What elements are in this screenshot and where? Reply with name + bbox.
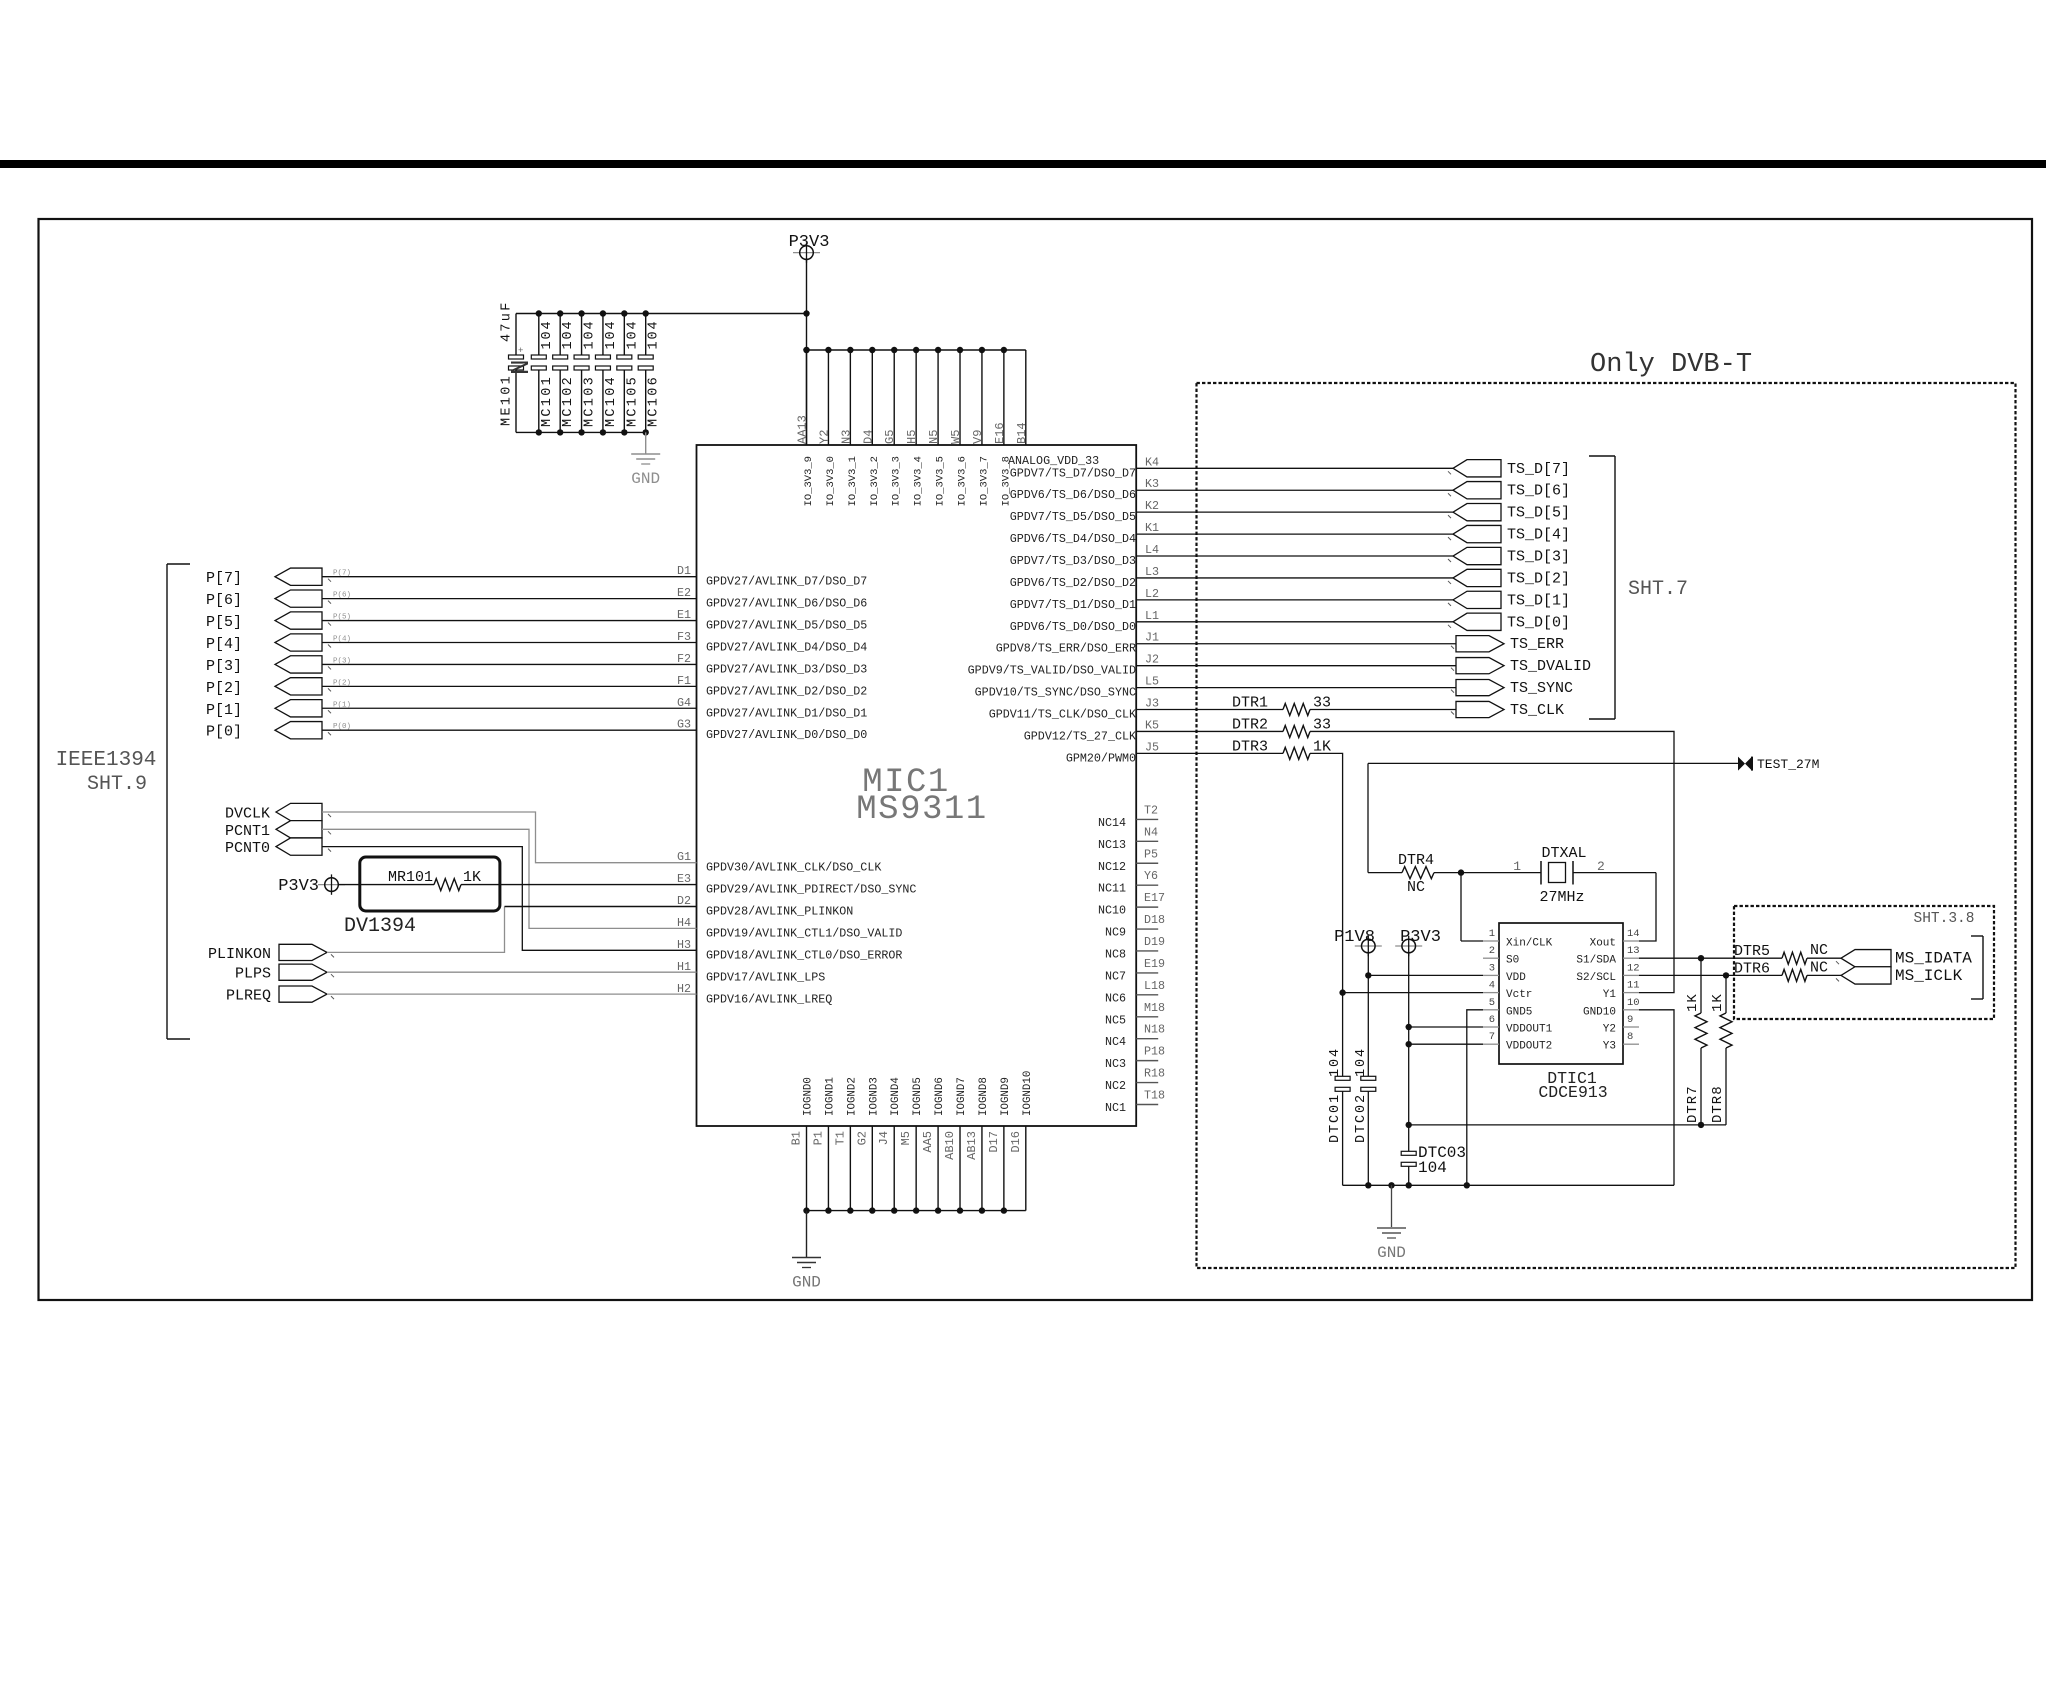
svg-text:L5: L5 [1145, 675, 1159, 689]
svg-text:NC: NC [1407, 879, 1425, 896]
svg-text:MC103: MC103 [583, 375, 598, 427]
svg-text:SHT.3.8: SHT.3.8 [1914, 911, 1975, 927]
svg-text:NC6: NC6 [1105, 991, 1126, 1005]
svg-text:IO_3V3_6: IO_3V3_6 [957, 456, 969, 506]
svg-text:NC4: NC4 [1105, 1035, 1126, 1049]
svg-text:GND: GND [1377, 1244, 1406, 1262]
svg-text:GPDV7/TS_D3/DSO_D3: GPDV7/TS_D3/DSO_D3 [1010, 554, 1136, 568]
svg-text:IO_3V3_4: IO_3V3_4 [913, 456, 925, 506]
svg-text:104: 104 [625, 319, 640, 349]
svg-text:P[1]: P[1] [206, 702, 242, 719]
svg-text:PLREQ: PLREQ [226, 988, 271, 1005]
svg-text:SHT.9: SHT.9 [87, 773, 147, 796]
svg-text:DTR6: DTR6 [1734, 960, 1770, 977]
svg-text:GND5: GND5 [1506, 1006, 1532, 1018]
svg-text:IOGND1: IOGND1 [824, 1077, 836, 1116]
svg-text:33: 33 [1313, 716, 1331, 733]
svg-text:GPDV28/AVLINK_PLINKON: GPDV28/AVLINK_PLINKON [706, 905, 853, 919]
svg-text:Xout: Xout [1590, 938, 1616, 950]
svg-text:NC8: NC8 [1105, 947, 1126, 961]
svg-text:L2: L2 [1145, 587, 1159, 601]
svg-text:GPDV6/TS_D6/DSO_D6: GPDV6/TS_D6/DSO_D6 [1010, 488, 1136, 502]
svg-text:TS_D[6]: TS_D[6] [1507, 483, 1570, 500]
svg-text:P[5]: P[5] [206, 614, 242, 631]
svg-text:IOGND9: IOGND9 [1000, 1077, 1012, 1116]
svg-text:IOGND10: IOGND10 [1022, 1071, 1034, 1116]
svg-text:IO_3V3_8: IO_3V3_8 [1000, 456, 1012, 506]
svg-text:DTC02: DTC02 [1354, 1093, 1369, 1143]
svg-text:PCNT0: PCNT0 [225, 840, 270, 857]
svg-text:MS_ICLK: MS_ICLK [1895, 967, 1963, 985]
svg-text:D17: D17 [987, 1131, 1001, 1153]
svg-text:NC3: NC3 [1105, 1057, 1126, 1071]
svg-text:J3: J3 [1145, 697, 1159, 711]
svg-text:104: 104 [604, 319, 619, 349]
svg-text:IOGND2: IOGND2 [846, 1077, 858, 1116]
svg-text:13: 13 [1627, 945, 1640, 957]
svg-text:PLINKON: PLINKON [208, 946, 271, 963]
svg-text:J4: J4 [877, 1131, 891, 1145]
svg-text:P1: P1 [811, 1131, 825, 1145]
svg-text:1K: 1K [1313, 738, 1331, 755]
svg-text:GPDV27/AVLINK_D7/DSO_D7: GPDV27/AVLINK_D7/DSO_D7 [706, 575, 867, 589]
svg-text:NC11: NC11 [1098, 882, 1126, 896]
svg-text:AA13: AA13 [796, 415, 810, 444]
svg-text:P(4): P(4) [333, 635, 351, 643]
svg-text:Vctr: Vctr [1506, 989, 1532, 1001]
svg-text:B1: B1 [790, 1131, 804, 1145]
svg-text:IOGND5: IOGND5 [912, 1077, 924, 1116]
svg-text:+: + [518, 346, 523, 356]
svg-text:N18: N18 [1144, 1023, 1165, 1037]
svg-text:R18: R18 [1144, 1067, 1165, 1081]
svg-text:DTR7: DTR7 [1685, 1085, 1701, 1123]
svg-text:8: 8 [1627, 1031, 1633, 1043]
svg-text:IOGND0: IOGND0 [803, 1077, 815, 1116]
svg-text:D4: D4 [861, 430, 875, 444]
svg-text:P[6]: P[6] [206, 592, 242, 609]
svg-text:J5: J5 [1145, 740, 1159, 754]
svg-text:P(6): P(6) [333, 592, 351, 600]
svg-text:NC: NC [1810, 959, 1828, 976]
svg-text:DTR5: DTR5 [1734, 943, 1770, 960]
svg-text:MR101: MR101 [388, 869, 433, 886]
svg-text:TS_D[4]: TS_D[4] [1507, 527, 1570, 544]
svg-text:GND10: GND10 [1583, 1006, 1616, 1018]
svg-text:GPDV27/AVLINK_D2/DSO_D2: GPDV27/AVLINK_D2/DSO_D2 [706, 684, 867, 698]
svg-text:TS_ERR: TS_ERR [1510, 636, 1564, 653]
svg-text:GPDV7/TS_D5/DSO_D5: GPDV7/TS_D5/DSO_D5 [1010, 510, 1136, 524]
svg-text:L3: L3 [1145, 565, 1159, 579]
svg-text:MS9311: MS9311 [856, 791, 987, 829]
svg-text:GPDV10/TS_SYNC/DSO_SYNC: GPDV10/TS_SYNC/DSO_SYNC [975, 686, 1136, 700]
svg-text:GPDV6/TS_D0/DSO_D0: GPDV6/TS_D0/DSO_D0 [1010, 620, 1136, 634]
svg-text:Y2: Y2 [817, 430, 831, 444]
svg-text:NC: NC [1810, 942, 1828, 959]
svg-text:K5: K5 [1145, 718, 1159, 732]
svg-text:MC104: MC104 [604, 375, 619, 427]
svg-text:DTC01: DTC01 [1328, 1093, 1343, 1143]
svg-text:3: 3 [1489, 962, 1495, 974]
svg-text:TS_D[1]: TS_D[1] [1507, 592, 1570, 609]
svg-text:PLPS: PLPS [235, 966, 271, 983]
svg-text:IOGND3: IOGND3 [868, 1077, 880, 1116]
svg-text:P1V8: P1V8 [1334, 928, 1375, 947]
svg-text:IO_3V3_1: IO_3V3_1 [847, 456, 859, 506]
svg-text:DTXAL: DTXAL [1541, 845, 1586, 862]
svg-text:V9: V9 [971, 430, 985, 444]
svg-text:P3V3: P3V3 [1400, 928, 1441, 947]
svg-text:NC2: NC2 [1105, 1079, 1126, 1093]
svg-text:11: 11 [1627, 980, 1640, 992]
svg-text:PCNT1: PCNT1 [225, 823, 270, 840]
svg-text:1K: 1K [1685, 993, 1701, 1012]
svg-text:P(1): P(1) [333, 701, 351, 709]
svg-text:P3V3: P3V3 [789, 233, 830, 252]
svg-text:GPDV16/AVLINK_LREQ: GPDV16/AVLINK_LREQ [706, 992, 832, 1006]
svg-text:TEST_27M: TEST_27M [1757, 757, 1819, 772]
svg-text:S0: S0 [1506, 955, 1519, 967]
svg-text:TS_D[7]: TS_D[7] [1507, 461, 1570, 478]
svg-text:P[7]: P[7] [206, 570, 242, 587]
svg-text:1: 1 [1513, 859, 1521, 874]
svg-text:MS_IDATA: MS_IDATA [1895, 950, 1972, 968]
svg-text:MC101: MC101 [540, 375, 555, 427]
svg-text:SHT.7: SHT.7 [1628, 578, 1688, 601]
svg-text:M18: M18 [1144, 1001, 1165, 1015]
svg-text:IO_3V3_0: IO_3V3_0 [825, 456, 837, 506]
svg-text:E17: E17 [1144, 891, 1165, 905]
svg-text:P(2): P(2) [333, 679, 351, 687]
svg-text:IEEE1394: IEEE1394 [56, 749, 157, 772]
svg-text:DTR3: DTR3 [1232, 738, 1268, 755]
svg-text:IO_3V3_5: IO_3V3_5 [935, 456, 947, 506]
svg-text:T18: T18 [1144, 1088, 1165, 1102]
svg-text:T1: T1 [833, 1131, 847, 1145]
svg-text:GPDV30/AVLINK_CLK/DSO_CLK: GPDV30/AVLINK_CLK/DSO_CLK [706, 861, 881, 875]
svg-text:NC5: NC5 [1105, 1013, 1126, 1027]
svg-text:GPDV7/TS_D1/DSO_D1: GPDV7/TS_D1/DSO_D1 [1010, 598, 1136, 612]
svg-text:P[3]: P[3] [206, 658, 242, 675]
svg-text:2: 2 [1597, 859, 1605, 874]
svg-text:L4: L4 [1145, 543, 1159, 557]
svg-text:DTR4: DTR4 [1398, 852, 1434, 869]
svg-text:1K: 1K [463, 869, 481, 886]
svg-text:GPDV27/AVLINK_D1/DSO_D1: GPDV27/AVLINK_D1/DSO_D1 [706, 706, 867, 720]
svg-text:W5: W5 [949, 430, 963, 444]
svg-text:P5: P5 [1144, 847, 1158, 861]
svg-text:P[2]: P[2] [206, 680, 242, 697]
svg-text:IO_3V3_7: IO_3V3_7 [978, 456, 990, 506]
svg-text:K2: K2 [1145, 499, 1159, 513]
svg-text:DTR1: DTR1 [1232, 695, 1268, 712]
svg-text:VDD: VDD [1506, 972, 1526, 984]
svg-text:P3V3: P3V3 [278, 877, 319, 896]
svg-text:P(7): P(7) [333, 570, 351, 578]
svg-text:33: 33 [1313, 695, 1331, 712]
svg-text:S1/SDA: S1/SDA [1576, 955, 1616, 967]
svg-text:D16: D16 [1009, 1131, 1023, 1153]
svg-text:E19: E19 [1144, 957, 1165, 971]
svg-text:GPDV27/AVLINK_D4/DSO_D4: GPDV27/AVLINK_D4/DSO_D4 [706, 640, 867, 654]
svg-text:TS_DVALID: TS_DVALID [1510, 658, 1591, 675]
svg-text:IO_3V3_9: IO_3V3_9 [803, 456, 815, 506]
svg-text:GPDV12/TS_27_CLK: GPDV12/TS_27_CLK [1024, 729, 1136, 743]
svg-text:DTR8: DTR8 [1710, 1085, 1726, 1123]
svg-text:NC1: NC1 [1105, 1101, 1126, 1115]
svg-text:S2/SCL: S2/SCL [1576, 972, 1616, 984]
svg-text:J2: J2 [1145, 653, 1159, 667]
svg-text:P(3): P(3) [333, 657, 351, 665]
svg-text:MC102: MC102 [561, 375, 576, 427]
svg-text:104: 104 [540, 319, 555, 349]
svg-text:104: 104 [561, 319, 576, 349]
svg-text:NC7: NC7 [1105, 969, 1126, 983]
svg-text:CDCE913: CDCE913 [1538, 1083, 1607, 1102]
svg-text:MC105: MC105 [625, 375, 640, 427]
svg-text:12: 12 [1627, 962, 1640, 974]
svg-text:P18: P18 [1144, 1045, 1165, 1059]
svg-text:DV1394: DV1394 [344, 915, 416, 938]
svg-text:NC9: NC9 [1105, 926, 1126, 940]
svg-text:5: 5 [1489, 997, 1495, 1009]
svg-text:GPDV9/TS_VALID/DSO_VALID: GPDV9/TS_VALID/DSO_VALID [968, 664, 1136, 678]
svg-text:GPDV19/AVLINK_CTL1/DSO_VALID: GPDV19/AVLINK_CTL1/DSO_VALID [706, 926, 902, 940]
svg-text:MC106: MC106 [647, 375, 662, 427]
svg-text:B14: B14 [1015, 422, 1029, 444]
svg-text:GPDV11/TS_CLK/DSO_CLK: GPDV11/TS_CLK/DSO_CLK [989, 708, 1136, 722]
svg-text:Y2: Y2 [1603, 1024, 1616, 1036]
svg-text:Xin/CLK: Xin/CLK [1506, 938, 1553, 950]
svg-text:IOGND6: IOGND6 [934, 1077, 946, 1116]
svg-text:AA5: AA5 [921, 1131, 935, 1153]
svg-text:104: 104 [583, 319, 598, 349]
svg-text:GPDV27/AVLINK_D0/DSO_D0: GPDV27/AVLINK_D0/DSO_D0 [706, 728, 867, 742]
svg-text:NC12: NC12 [1098, 860, 1126, 874]
svg-text:N4: N4 [1144, 825, 1158, 839]
svg-text:TS_D[5]: TS_D[5] [1507, 505, 1570, 522]
svg-text:VDDOUT1: VDDOUT1 [1506, 1024, 1553, 1036]
svg-text:GPDV6/TS_D4/DSO_D4: GPDV6/TS_D4/DSO_D4 [1010, 532, 1136, 546]
svg-text:10: 10 [1627, 997, 1640, 1009]
svg-text:GPDV27/AVLINK_D6/DSO_D6: GPDV27/AVLINK_D6/DSO_D6 [706, 597, 867, 611]
svg-text:TS_SYNC: TS_SYNC [1510, 680, 1573, 697]
svg-text:G5: G5 [883, 430, 897, 444]
svg-text:Only DVB-T: Only DVB-T [1590, 350, 1752, 380]
svg-text:9: 9 [1627, 1014, 1633, 1026]
svg-text:GPDV27/AVLINK_D3/DSO_D3: GPDV27/AVLINK_D3/DSO_D3 [706, 662, 867, 676]
svg-text:GPDV17/AVLINK_LPS: GPDV17/AVLINK_LPS [706, 970, 825, 984]
svg-text:D18: D18 [1144, 913, 1165, 927]
svg-text:GPDV18/AVLINK_CTL0/DSO_ERROR: GPDV18/AVLINK_CTL0/DSO_ERROR [706, 948, 902, 962]
svg-text:GPDV6/TS_D2/DSO_D2: GPDV6/TS_D2/DSO_D2 [1010, 576, 1136, 590]
svg-text:TS_D[3]: TS_D[3] [1507, 549, 1570, 566]
svg-text:GND: GND [631, 470, 660, 488]
svg-text:IOGND4: IOGND4 [890, 1077, 902, 1116]
svg-text:7: 7 [1489, 1031, 1495, 1043]
svg-text:AB10: AB10 [943, 1131, 957, 1160]
svg-text:GPDV29/AVLINK_PDIRECT/DSO_SYNC: GPDV29/AVLINK_PDIRECT/DSO_SYNC [706, 883, 916, 897]
svg-text:4: 4 [1489, 980, 1495, 992]
svg-text:6: 6 [1489, 1014, 1495, 1026]
svg-text:AB13: AB13 [965, 1131, 979, 1160]
svg-text:DTR2: DTR2 [1232, 716, 1268, 733]
svg-text:GPM20/PWM0: GPM20/PWM0 [1066, 751, 1136, 765]
svg-text:M5: M5 [899, 1131, 913, 1145]
svg-text:2: 2 [1489, 945, 1495, 957]
svg-text:P(5): P(5) [333, 614, 351, 622]
svg-text:K4: K4 [1145, 455, 1159, 469]
svg-text:D19: D19 [1144, 935, 1165, 949]
svg-text:47uF: 47uF [500, 300, 515, 342]
svg-text:N3: N3 [839, 430, 853, 444]
svg-text:NC10: NC10 [1098, 904, 1126, 918]
svg-text:GPDV27/AVLINK_D5/DSO_D5: GPDV27/AVLINK_D5/DSO_D5 [706, 619, 867, 633]
svg-text:T2: T2 [1144, 803, 1158, 817]
svg-text:J1: J1 [1145, 631, 1159, 645]
svg-text:GND: GND [792, 1274, 821, 1292]
svg-text:Y6: Y6 [1144, 869, 1158, 883]
svg-text:P(0): P(0) [333, 723, 351, 731]
svg-text:VDDOUT2: VDDOUT2 [1506, 1041, 1552, 1053]
svg-text:DVCLK: DVCLK [225, 806, 270, 823]
svg-text:104: 104 [1418, 1159, 1447, 1177]
svg-text:104: 104 [647, 319, 662, 349]
svg-text:Y3: Y3 [1603, 1041, 1616, 1053]
svg-text:1K: 1K [1710, 993, 1726, 1012]
svg-text:N5: N5 [927, 430, 941, 444]
svg-text:GPDV8/TS_ERR/DSO_ERR: GPDV8/TS_ERR/DSO_ERR [996, 642, 1136, 656]
svg-text:K3: K3 [1145, 477, 1159, 491]
svg-text:G2: G2 [855, 1131, 869, 1145]
svg-text:H5: H5 [905, 430, 919, 444]
svg-text:NC13: NC13 [1098, 838, 1126, 852]
svg-text:TS_CLK: TS_CLK [1510, 702, 1564, 719]
svg-text:1: 1 [1489, 928, 1495, 940]
svg-text:104: 104 [1354, 1047, 1369, 1077]
svg-text:104: 104 [1328, 1047, 1343, 1077]
svg-text:TS_D[0]: TS_D[0] [1507, 614, 1570, 631]
svg-text:IOGND7: IOGND7 [956, 1077, 968, 1116]
svg-text:IOGND8: IOGND8 [978, 1077, 990, 1116]
svg-text:IO_3V3_2: IO_3V3_2 [869, 456, 881, 506]
svg-text:14: 14 [1627, 928, 1640, 940]
svg-text:L18: L18 [1144, 979, 1165, 993]
svg-text:NC14: NC14 [1098, 816, 1126, 830]
svg-text:IO_3V3_3: IO_3V3_3 [891, 456, 903, 506]
svg-text:TS_D[2]: TS_D[2] [1507, 570, 1570, 587]
svg-text:Y1: Y1 [1603, 989, 1617, 1001]
svg-text:E16: E16 [993, 422, 1007, 444]
svg-text:ME101: ME101 [500, 374, 515, 426]
svg-text:L1: L1 [1145, 609, 1159, 623]
svg-text:GPDV7/TS_D7/DSO_D7: GPDV7/TS_D7/DSO_D7 [1010, 466, 1136, 480]
svg-text:P[4]: P[4] [206, 636, 242, 653]
svg-text:27MHz: 27MHz [1539, 889, 1584, 906]
svg-text:K1: K1 [1145, 521, 1159, 535]
svg-text:P[0]: P[0] [206, 724, 242, 741]
